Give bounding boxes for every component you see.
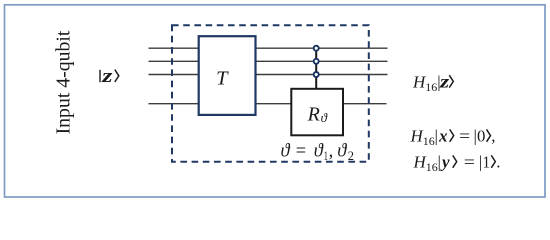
wire q3: [149, 103, 387, 105]
svg-text:x: x: [438, 127, 448, 146]
svg-text:2: 2: [348, 149, 354, 163]
label theta = theta1, theta2: [281, 141, 355, 163]
label H16|y⟩ = |1⟩.: [413, 153, 501, 175]
svg-text:16: 16: [426, 160, 438, 174]
svg-text:=: =: [296, 141, 306, 161]
svg-text:=: =: [459, 127, 470, 146]
svg-text:y: y: [440, 153, 450, 172]
wire q1: [149, 60, 388, 62]
svg-text:z: z: [101, 67, 114, 87]
svg-text:Input 4-qubit: Input 4-qubit: [52, 30, 74, 134]
open control node on q1: [314, 59, 319, 64]
svg-text:z: z: [439, 71, 450, 91]
label H16|x⟩ = |0⟩,: [410, 127, 496, 149]
label H16|z⟩ output: [412, 71, 453, 94]
outer border frame: [5, 5, 546, 197]
svg-text:1: 1: [483, 153, 491, 172]
svg-text:ϑ: ϑ: [281, 141, 291, 161]
svg-text:=: =: [464, 153, 475, 172]
svg-text:R: R: [307, 104, 320, 126]
svg-text:1: 1: [324, 149, 328, 163]
svg-text:16: 16: [425, 80, 437, 94]
svg-text:16: 16: [423, 134, 435, 148]
open control node on q0: [314, 46, 319, 51]
label R_theta: [307, 104, 328, 126]
svg-text:ϑ: ϑ: [321, 110, 328, 125]
svg-text:,: ,: [491, 127, 495, 146]
svg-text:|: |: [435, 127, 438, 146]
svg-text:,: ,: [329, 141, 334, 161]
svg-text:.: .: [496, 153, 500, 172]
dashed enclosure box: [172, 25, 369, 162]
open control node on q2: [314, 72, 319, 77]
control vertical line: [315, 48, 317, 89]
svg-text:ϑ: ϑ: [314, 141, 324, 161]
svg-text:|: |: [438, 153, 441, 172]
gate R_theta box U2: [291, 89, 343, 136]
gate T box U1: [199, 36, 256, 115]
svg-text:0: 0: [477, 127, 485, 146]
wire q0: [149, 47, 388, 49]
svg-text:T: T: [216, 67, 229, 89]
label: |z⟩ input ket: [100, 67, 119, 87]
wire q2: [149, 74, 388, 76]
svg-text:ϑ: ϑ: [337, 141, 347, 161]
